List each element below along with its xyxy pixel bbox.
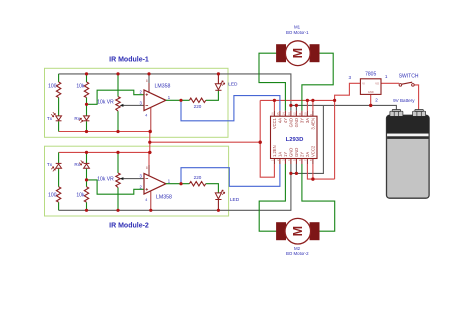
motor M1 body: [285, 41, 310, 66]
svg-text:15: 15: [276, 112, 280, 116]
svg-text:10k VR: 10k VR: [97, 177, 114, 183]
LED Tx (module-1): [51, 112, 61, 121]
wire: module-1 R2 column green links: [86, 74, 88, 132]
motor M2 body: [285, 218, 311, 244]
svg-text:GND: GND: [294, 148, 299, 157]
wire: gray GND bus to battery negative: [291, 105, 397, 110]
IC U3 L293D top pin stubs: [274, 111, 313, 116]
motor M1 left terminal pad: [277, 45, 286, 62]
wire: red to L293D pin10: [306, 100, 308, 110]
junction dot op-amp2 output: [179, 182, 182, 185]
svg-text:3Y: 3Y: [300, 118, 305, 123]
potentiometer 10k VR (module-2) body: [116, 173, 120, 188]
svg-text:LED: LED: [228, 82, 238, 88]
svg-text:GND: GND: [368, 90, 374, 94]
svg-text:4A: 4A: [278, 118, 283, 123]
svg-text:16: 16: [271, 112, 275, 116]
svg-text:9V Battery: 9V Battery: [393, 98, 415, 103]
resistor R5 10k (module-2): [84, 187, 88, 203]
IR Module-2 bounding box: [45, 146, 229, 216]
svg-text:10k: 10k: [76, 84, 85, 90]
svg-text:GND: GND: [294, 118, 299, 127]
svg-text:LED: LED: [230, 197, 240, 203]
potentiometer 10k VR (module-2) leads: [117, 152, 119, 210]
junction dot op-amp1 input branch: [85, 103, 88, 106]
wire: red drop right of L293D: [334, 100, 336, 179]
wire: red loop to L293D pin1: [260, 142, 274, 177]
wire: module-1 top gray rail to L293D pin13: [59, 74, 291, 111]
op-amp U1 V+ pin 8 wire: [148, 74, 150, 83]
svg-text:13: 13: [287, 112, 291, 116]
svg-text:M1: M1: [294, 24, 301, 29]
junction dots 5V line at L293D: [273, 99, 276, 102]
wire: L293D pin4 down to module-2 gray rail: [59, 164, 291, 210]
junction dots gray bus at L293D GND pins: [289, 104, 292, 107]
svg-text:10k VR: 10k VR: [97, 100, 114, 106]
wire: red to L293D pin16: [273, 100, 275, 110]
svg-text:4: 4: [145, 113, 147, 117]
battery BT1 thin dark stripe: [387, 136, 428, 139]
svg-text:100: 100: [48, 192, 57, 198]
junction dot middle red link right: [259, 141, 262, 144]
motor M1 right terminal pad: [310, 45, 319, 62]
resistor R1 100 (module-1): [56, 82, 60, 98]
svg-text:10k: 10k: [76, 192, 85, 198]
wire: blue op-amp1 output to L293D pin15: [181, 96, 280, 121]
svg-text:220: 220: [194, 175, 202, 180]
IR Module-1 bounding box: [45, 68, 229, 137]
svg-text:M: M: [291, 48, 305, 58]
resistor R4 100 (module-2): [56, 187, 60, 203]
voltage regulator U4 7805 body: [360, 79, 381, 95]
svg-text:2Y: 2Y: [300, 152, 305, 157]
U4 7805 internal marks: [362, 81, 379, 94]
svg-text:VI: VI: [362, 81, 365, 85]
svg-text:BO Motor-2: BO Motor-2: [286, 251, 309, 256]
svg-text:1,2EN: 1,2EN: [272, 145, 277, 157]
op-amp U2 plus/minus marks: [146, 179, 149, 191]
wire: module-2 Tx column green links: [58, 152, 60, 210]
svg-text:8: 8: [146, 166, 148, 170]
LED Tx (module-2): [51, 163, 61, 171]
junction dot middle red link left: [148, 141, 151, 144]
wire: op-amp2 output green: [166, 183, 190, 185]
resistor R2 10k (module-1): [84, 82, 88, 98]
battery BT1 body: [387, 115, 430, 198]
op-amp U2 GND pin 4 wire: [150, 191, 152, 210]
switch SW1: [399, 82, 414, 86]
wire: op-amp1 output green: [166, 99, 190, 101]
svg-text:3A: 3A: [305, 118, 310, 123]
wire: green from 10k junction to op-amp1 pin2: [87, 90, 145, 104]
svg-text:IR Module-2: IR Module-2: [109, 222, 149, 229]
wire: blue op-amp2 output to L293D pin2: [181, 164, 280, 186]
IC U3 L293D body: [271, 116, 318, 158]
svg-text:10: 10: [304, 112, 308, 116]
wire: module-1 bottom red rail: [59, 131, 152, 133]
wire: 220 to LED2: [206, 184, 219, 193]
wire: red 5V line from 7805 out to L293D area: [260, 83, 360, 100]
junction dot op-amp1 output: [179, 99, 182, 102]
junction dots module-2 top rail: [85, 151, 88, 154]
svg-text:LM358: LM358: [155, 83, 171, 89]
op-amp U2 V+ pin 8 wire: [148, 152, 150, 165]
svg-text:L293D: L293D: [286, 137, 304, 143]
wire: module-2 Rx column green links: [86, 152, 88, 210]
junction dot op-amp2 input branch: [85, 178, 88, 181]
wire: red to L293D pin7: [307, 164, 334, 179]
svg-text:Rx: Rx: [74, 162, 80, 167]
potentiometer 10k VR (module-1) body: [116, 97, 120, 112]
svg-text:VCC2: VCC2: [311, 145, 316, 157]
svg-text:2A: 2A: [305, 152, 310, 157]
svg-text:220: 220: [194, 104, 202, 109]
svg-text:1Y: 1Y: [283, 152, 288, 157]
svg-text:M: M: [291, 226, 305, 236]
svg-text:LM358: LM358: [156, 195, 172, 201]
svg-text:4Y: 4Y: [283, 118, 288, 123]
junction dots module-1 top rail: [85, 72, 88, 75]
LED2 indicator (module-2): [215, 190, 225, 210]
IC U3 L293D bottom pin stubs: [274, 159, 313, 165]
svg-text:VO: VO: [375, 81, 379, 85]
wire: red drop to middle rail: [259, 100, 261, 142]
wire: red middle link between module rails: [150, 141, 260, 143]
svg-text:Tx: Tx: [47, 162, 53, 167]
svg-text:2: 2: [375, 98, 378, 103]
wire: module-2 top red rail: [59, 151, 152, 153]
wire: switch to battery positive: [414, 85, 418, 111]
svg-text:3: 3: [349, 75, 352, 80]
wire: gray branch to L293D pin5: [295, 164, 297, 173]
wire: 7805 GND pin2 to gray bus: [370, 94, 372, 105]
wire: motor M1 right to L293D pin11: [302, 53, 333, 111]
wire: module-1 R1 column green links: [58, 74, 60, 132]
LED Rx (module-2): [79, 160, 89, 168]
wire: green from Rx junction to op-amp2 pin2: [87, 180, 145, 194]
junction dot VCC2 line: [311, 177, 314, 180]
motor M2 right terminal pad: [310, 223, 319, 240]
wire: red to L293D pin8: [312, 164, 314, 179]
svg-text:3,4EN: 3,4EN: [311, 118, 316, 130]
resistor R6 220 (module-2): [189, 182, 205, 186]
svg-text:14: 14: [282, 112, 286, 116]
junction dot 7805 GND on gray bus: [369, 104, 372, 107]
wire: 220 to LED1: [206, 90, 219, 100]
junction dots gray line below L293D: [289, 172, 292, 175]
wire: red to L293D pin9: [312, 100, 314, 110]
svg-text:100: 100: [48, 84, 57, 90]
svg-text:BO Motor-1: BO Motor-1: [286, 30, 309, 35]
IC U3 top pin names: [272, 117, 316, 129]
op-amp U1 LM358 (module-1): [144, 90, 166, 111]
IC U3 bottom pin names: [272, 145, 316, 157]
IC U3 top pin numbers: [271, 112, 314, 116]
resistor R3 220 (module-1): [189, 98, 205, 102]
svg-text:VCC1: VCC1: [272, 117, 277, 129]
potentiometer 10k VR (module-2) wiper to op-amp2 pin3: [120, 177, 144, 180]
svg-text:11: 11: [298, 112, 302, 115]
op-amp U1 GND pin 4 wire: [150, 108, 152, 132]
IC U3 bottom pin numbers: [271, 159, 314, 161]
svg-text:1A: 1A: [278, 152, 283, 157]
svg-text:1: 1: [385, 74, 388, 79]
svg-text:7805: 7805: [365, 72, 376, 78]
battery BT1 positive terminal: [413, 110, 426, 117]
wire: gray branch to L293D pin12: [295, 105, 297, 110]
junction dots module-2 bottom rail: [85, 209, 88, 212]
LED Rx (module-1): [79, 116, 90, 123]
svg-text:IR Module-1: IR Module-1: [109, 56, 149, 63]
svg-text:SWITCH: SWITCH: [399, 74, 419, 80]
LED1 indicator (module-1): [215, 74, 225, 90]
svg-text:Rx: Rx: [74, 116, 80, 121]
wire: gray bypass right of L293D: [291, 105, 324, 173]
wire: motor M1 left to L293D pin14: [259, 53, 285, 111]
wire: motor M2 left to L293D pin3: [259, 164, 285, 231]
wire: motor M2 right to L293D pin6: [302, 164, 335, 231]
junction dots module-1 bottom rail: [85, 130, 88, 133]
svg-text:GND: GND: [289, 118, 294, 127]
op-amp U2 LM358 (module-2): [144, 173, 166, 194]
svg-text:4: 4: [145, 198, 147, 202]
potentiometer 10k VR (module-1) leads: [117, 74, 119, 132]
wire: red vertical joining module-1 and module-2 rails: [149, 132, 151, 153]
op-amp U1 plus/minus marks: [146, 93, 149, 105]
svg-text:8: 8: [146, 79, 148, 83]
battery BT1 white stripe: [387, 134, 428, 137]
battery BT1 top dark band: [387, 115, 430, 133]
svg-text:M2: M2: [294, 246, 301, 251]
svg-text:GND: GND: [289, 148, 294, 157]
motor M2 left terminal pad: [277, 223, 286, 240]
svg-text:Tx: Tx: [47, 116, 53, 121]
potentiometer 10k VR (module-1) wiper to op-amp1 pin3: [120, 104, 144, 107]
svg-text:12: 12: [293, 112, 297, 116]
wire: 7805 input to switch: [381, 82, 399, 84]
battery BT1 negative terminal: [390, 110, 403, 117]
